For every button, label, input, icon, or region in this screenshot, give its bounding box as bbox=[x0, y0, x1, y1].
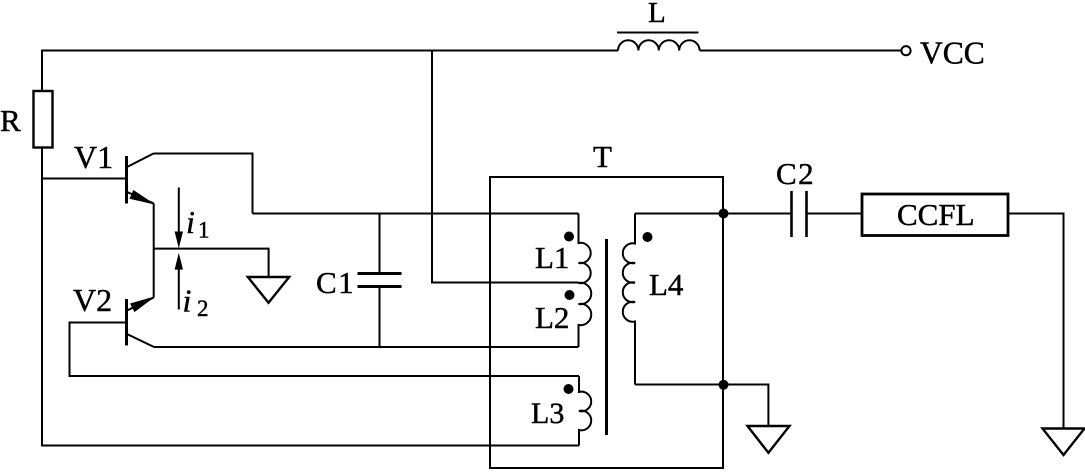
resistor R bbox=[34, 91, 53, 148]
winding L2 bbox=[579, 283, 592, 347]
svg-text:V2: V2 bbox=[73, 282, 112, 318]
wire: L4 top to output node bbox=[635, 213, 724, 215]
winding L4 bbox=[623, 214, 635, 385]
wire: top rail left of inductor L bbox=[42, 50, 618, 52]
inductor L bbox=[617, 33, 700, 51]
svg-text:L3: L3 bbox=[531, 397, 564, 430]
VCC terminal circle bbox=[901, 46, 910, 55]
capacitor C2 bbox=[792, 191, 807, 237]
transformer T outline box bbox=[490, 177, 723, 468]
ground (secondary) bbox=[748, 426, 790, 453]
winding L3 bbox=[579, 376, 591, 446]
wire: CCFL right to ground bbox=[1008, 214, 1064, 429]
svg-text:CCFL: CCFL bbox=[897, 197, 975, 232]
svg-text:C2: C2 bbox=[776, 156, 815, 191]
winding L1 bbox=[579, 214, 591, 284]
polarity dot L1 bbox=[564, 232, 574, 242]
wire: ground node to secondary ground bbox=[724, 385, 769, 427]
current arrow i2 bbox=[175, 253, 183, 310]
wire: top rail right of inductor L bbox=[700, 50, 902, 52]
svg-text:T: T bbox=[593, 139, 612, 174]
transformer core bbox=[605, 239, 608, 435]
svg-text:2: 2 bbox=[197, 296, 209, 321]
wire: bottom rail (left rail to L3 bottom) bbox=[42, 445, 579, 447]
CCFL lamp box bbox=[862, 194, 1008, 236]
transistor V2 bbox=[127, 297, 155, 347]
svg-text:VCC: VCC bbox=[920, 36, 985, 71]
svg-text:L4: L4 bbox=[649, 267, 684, 302]
wire: output node to C2 bbox=[724, 213, 792, 215]
wire: V1 base bbox=[41, 178, 126, 180]
wire: V2 base down and right bbox=[70, 323, 580, 377]
svg-text:i: i bbox=[183, 283, 192, 319]
wire: L4 bottom to ground node bbox=[635, 384, 724, 386]
transistor V1 bbox=[127, 154, 154, 204]
wire: C2 to CCFL bbox=[807, 213, 863, 215]
current arrow i1 bbox=[175, 188, 183, 249]
wire: V1 collector up and over bbox=[154, 154, 253, 214]
svg-text:V1: V1 bbox=[74, 139, 113, 175]
capacitor C1 bbox=[358, 214, 402, 348]
wire: left rail lower (R down to bottom rail) bbox=[41, 148, 43, 447]
svg-text:C1: C1 bbox=[316, 265, 355, 300]
wire: emitters vertical bbox=[153, 203, 155, 297]
svg-text:R: R bbox=[0, 103, 21, 138]
wire: VCC rail down to center tap bbox=[432, 51, 579, 283]
junction: secondary ground node bbox=[719, 380, 729, 390]
ground (CCFL output) bbox=[1043, 429, 1085, 456]
svg-text:i: i bbox=[186, 204, 195, 240]
polarity dot L3 bbox=[564, 384, 574, 394]
svg-text:L2: L2 bbox=[535, 300, 569, 335]
wire: left rail upper (rail to R) bbox=[41, 50, 43, 92]
wire: emitter line to ground bbox=[154, 249, 269, 277]
wire: V2 collector to transformer L2 bottom bbox=[154, 346, 579, 348]
svg-text:1: 1 bbox=[198, 218, 210, 243]
ground (emitters) bbox=[248, 277, 289, 303]
svg-text:L1: L1 bbox=[535, 240, 569, 275]
svg-text:L: L bbox=[648, 0, 666, 29]
junction: output node bbox=[719, 209, 729, 219]
polarity dot L4 bbox=[643, 232, 653, 242]
polarity dot L2 bbox=[565, 290, 575, 300]
wire: collector node to transformer L1 top bbox=[253, 213, 579, 215]
